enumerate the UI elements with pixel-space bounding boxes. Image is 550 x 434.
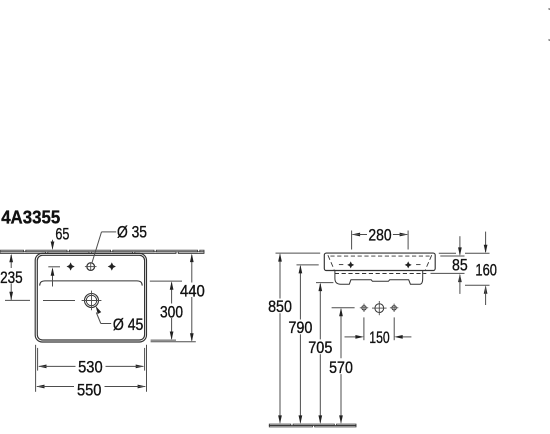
svg-text:850: 850 — [268, 297, 292, 316]
svg-text:235: 235 — [0, 268, 23, 287]
svg-text:300: 300 — [160, 302, 183, 321]
svg-text:Ø 45: Ø 45 — [113, 315, 143, 334]
svg-text:440: 440 — [180, 281, 205, 300]
svg-text:280: 280 — [368, 225, 391, 244]
svg-text:150: 150 — [369, 328, 389, 347]
svg-text:Ø 35: Ø 35 — [117, 222, 147, 241]
svg-text:570: 570 — [329, 358, 353, 377]
svg-text:550: 550 — [77, 381, 102, 400]
svg-text:705: 705 — [308, 338, 332, 357]
svg-text:65: 65 — [55, 224, 69, 243]
svg-text:4A3355: 4A3355 — [1, 206, 60, 227]
svg-text:790: 790 — [288, 318, 312, 337]
svg-text:530: 530 — [78, 358, 103, 377]
svg-text:160: 160 — [475, 261, 497, 280]
svg-text:85: 85 — [452, 256, 468, 275]
